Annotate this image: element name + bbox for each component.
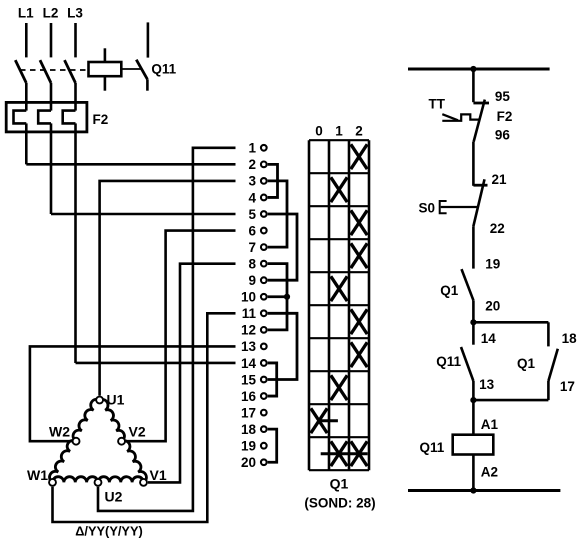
svg-text:W2: W2 — [49, 424, 70, 440]
svg-text:11: 11 — [242, 306, 257, 321]
svg-text:4: 4 — [248, 190, 256, 205]
svg-text:L3: L3 — [67, 6, 83, 21]
svg-text:15: 15 — [241, 372, 257, 387]
svg-text:7: 7 — [248, 240, 256, 255]
svg-text:L2: L2 — [43, 6, 59, 21]
svg-text:S0: S0 — [419, 201, 436, 216]
svg-text:A2: A2 — [481, 465, 498, 480]
svg-text:Q1: Q1 — [517, 356, 536, 371]
svg-text:10: 10 — [241, 290, 256, 305]
svg-text:2: 2 — [248, 157, 256, 172]
svg-text:18: 18 — [562, 331, 578, 346]
svg-text:20: 20 — [485, 298, 500, 313]
svg-text:3: 3 — [248, 174, 256, 189]
svg-text:TT: TT — [429, 97, 446, 112]
svg-text:1: 1 — [335, 124, 343, 139]
svg-text:L1: L1 — [18, 6, 34, 21]
svg-text:16: 16 — [241, 389, 257, 404]
svg-text:19: 19 — [485, 256, 500, 271]
svg-text:13: 13 — [479, 377, 495, 392]
svg-text:Q11: Q11 — [151, 62, 176, 77]
svg-text:Q11: Q11 — [436, 354, 461, 369]
svg-text:18: 18 — [241, 422, 257, 437]
svg-text:0: 0 — [315, 124, 323, 139]
svg-text:22: 22 — [490, 221, 505, 236]
svg-text:(SOND: 28): (SOND: 28) — [304, 496, 375, 511]
svg-text:19: 19 — [241, 439, 256, 454]
svg-text:5: 5 — [248, 207, 256, 222]
svg-text:6: 6 — [248, 223, 256, 238]
svg-text:Q1: Q1 — [440, 283, 459, 298]
svg-text:17: 17 — [560, 379, 575, 394]
svg-text:14: 14 — [241, 356, 257, 371]
svg-text:A1: A1 — [481, 417, 499, 432]
svg-text:14: 14 — [481, 331, 497, 346]
svg-text:96: 96 — [495, 128, 511, 143]
svg-text:20: 20 — [241, 455, 256, 470]
svg-text:17: 17 — [241, 405, 256, 420]
svg-text:9: 9 — [248, 273, 256, 288]
svg-text:1: 1 — [248, 141, 256, 156]
svg-text:Q11: Q11 — [420, 440, 445, 455]
svg-text:V1: V1 — [150, 467, 167, 483]
svg-text:Δ/YY(Y/YY): Δ/YY(Y/YY) — [75, 524, 143, 539]
svg-text:V2: V2 — [129, 424, 146, 440]
svg-text:95: 95 — [495, 89, 511, 104]
svg-text:U2: U2 — [105, 489, 123, 505]
svg-text:F2: F2 — [497, 109, 513, 124]
svg-text:12: 12 — [241, 323, 256, 338]
svg-text:8: 8 — [248, 256, 256, 271]
svg-text:13: 13 — [241, 339, 257, 354]
svg-text:21: 21 — [492, 172, 508, 187]
svg-text:U1: U1 — [107, 392, 125, 408]
svg-text:Q1: Q1 — [330, 476, 349, 492]
svg-text:W1: W1 — [27, 467, 48, 483]
svg-text:2: 2 — [355, 124, 363, 139]
svg-text:F2: F2 — [93, 112, 109, 127]
